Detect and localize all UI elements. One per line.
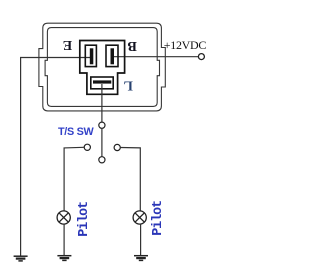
wire: left contact to left lamp (64, 147, 84, 211)
svg-text:L: L (124, 78, 133, 93)
ground G1 (14, 256, 28, 261)
ground G2 (57, 256, 71, 261)
switch right contact (114, 144, 120, 150)
switch left contact (84, 144, 90, 150)
ground G3 (134, 256, 148, 261)
pin B (111, 48, 115, 64)
svg-text:+12VDC: +12VDC (164, 38, 207, 52)
relay inner case (with side steps) (45, 28, 159, 107)
terminal slot B (106, 45, 118, 66)
wire: pin B to +12VDC terminal (113, 56, 199, 58)
pin E (90, 48, 94, 64)
wire: right contact to right lamp (120, 148, 140, 212)
wire: pin L down to switch (101, 84, 103, 122)
svg-text:Pilot: Pilot (151, 201, 166, 236)
switch blade (101, 128, 103, 156)
relay outer case (with mounting tabs) (39, 23, 165, 111)
wire: right lamp to ground (140, 224, 142, 255)
svg-text:B: B (128, 38, 137, 53)
switch S1 pole circle (99, 122, 105, 128)
lamp left (Pilot) (57, 211, 70, 224)
terminal slot L (91, 77, 113, 89)
svg-text:E: E (63, 37, 72, 52)
connector block outline (80, 41, 125, 95)
svg-text:T/S SW: T/S SW (58, 126, 94, 138)
switch blade tip circle (99, 157, 105, 163)
svg-text:Pilot: Pilot (77, 202, 92, 237)
terminal +12VDC circle (198, 54, 204, 60)
pin L (93, 80, 111, 83)
wire: left lamp to ground (63, 224, 65, 255)
terminal slot E (85, 45, 96, 66)
lamp right (Pilot) (133, 211, 146, 224)
wire: ground riser to pin E (21, 58, 91, 256)
